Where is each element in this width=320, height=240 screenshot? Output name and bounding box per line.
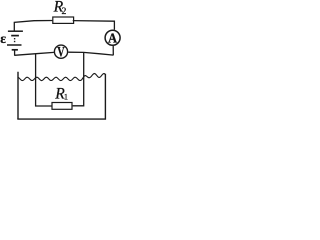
- svg-text:1: 1: [64, 93, 68, 102]
- svg-text:V: V: [57, 44, 65, 60]
- svg-text:ε: ε: [0, 31, 6, 46]
- svg-text:2: 2: [62, 6, 67, 17]
- svg-text:A: A: [108, 30, 117, 46]
